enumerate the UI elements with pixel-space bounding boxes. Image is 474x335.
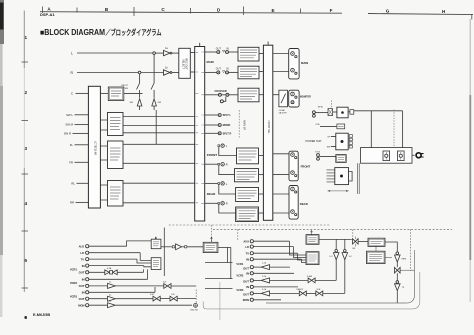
IC relay bus 2 — [263, 45, 272, 220]
transformer T3 — [335, 168, 349, 185]
wire VCR2 OUT row b — [116, 285, 164, 287]
wire remote column low — [396, 273, 398, 281]
wire V-C stem — [344, 239, 346, 249]
pin square buffer in — [172, 246, 174, 248]
svg-text:S-V2: S-V2 — [150, 294, 154, 296]
wire opt drop 2 — [230, 247, 232, 278]
svg-text:REMO2: REMO2 — [297, 289, 304, 291]
op-amp video out buffer 3 — [261, 291, 269, 296]
wire riser VCR1 in — [144, 266, 151, 267]
fuse box AC — [328, 109, 333, 116]
svg-text:TV: TV — [81, 257, 85, 261]
wire stubs bus to blocks — [100, 120, 107, 200]
connector MAIN IN R — [226, 71, 229, 74]
wire VCR3 OUT row b — [270, 292, 299, 294]
connector front pre L — [218, 145, 220, 147]
wire VCR2 OUT row — [253, 279, 260, 281]
svg-text:MONO: MONO — [223, 124, 231, 127]
wire VCR3 IN row — [89, 291, 155, 293]
wire dsp2 front R — [123, 162, 195, 164]
wire TV row — [89, 258, 137, 260]
balun remote 2 — [316, 291, 323, 296]
dashed separator remote — [213, 228, 452, 230]
wire R drop to input switch — [139, 74, 141, 83]
wire amp3 to bus2 — [259, 94, 263, 96]
wire VCR1 OUT row b — [270, 266, 290, 268]
svg-text:MAIN: MAIN — [301, 61, 308, 65]
wire R to buffer — [141, 72, 163, 74]
block REC OUT SELECTOR — [179, 48, 191, 78]
wire FR — [75, 161, 89, 163]
diode C-V converter — [335, 250, 338, 253]
amp block front R power — [235, 169, 259, 182]
wire amp4 to bus2 — [259, 155, 264, 157]
svg-text:4T A: 4T A — [315, 123, 320, 126]
wire rear L drop — [219, 184, 236, 194]
dashed separator digital — [169, 224, 330, 226]
wire VCR1 OUT row b — [117, 271, 143, 273]
svg-text:OUT: OUT — [216, 47, 222, 50]
wire amp1 to bus2 — [259, 53, 263, 55]
wire vcr2 link right — [205, 278, 233, 280]
wire riser VCR3 in — [154, 287, 156, 292]
wire to fuse F1A — [320, 125, 337, 127]
svg-text:MAIN SP: MAIN SP — [243, 120, 246, 130]
wire main in R to amp — [229, 71, 239, 73]
svg-text:REAR: REAR — [207, 192, 216, 196]
frame ticks top — [43, 7, 472, 20]
svg-text:MONITOR: MONITOR — [300, 96, 311, 98]
wire VCR3 OUT row — [89, 298, 107, 300]
wire opt out right — [218, 246, 231, 248]
fuse holder 2 — [398, 151, 405, 161]
svg-text:IN: IN — [226, 68, 229, 71]
junction remote in — [353, 239, 359, 244]
wire key IC to remote column — [385, 242, 397, 252]
box muting level IC — [108, 87, 124, 101]
svg-text:R: R — [226, 202, 228, 206]
wire front L drop — [219, 147, 237, 156]
wire vcr3 link right — [205, 288, 233, 290]
svg-text:■BLOCK DIAGRAM: ■BLOCK DIAGRAM — [40, 28, 105, 37]
svg-text:5: 5 — [25, 258, 28, 263]
wire riser VCR1 out — [143, 269, 145, 272]
wire coupler link — [222, 94, 226, 96]
wire MON row — [253, 299, 281, 301]
wire riser LD — [140, 253, 151, 261]
node bus1 top tick — [199, 43, 201, 47]
svg-text:F: F — [330, 8, 333, 13]
connector coupler aux — [220, 100, 223, 103]
wire dashed up from fuse — [330, 100, 332, 108]
wire front R drop — [219, 165, 235, 174]
svg-text:MON: MON — [243, 298, 249, 302]
connector SPLIT R — [205, 132, 218, 134]
pin labels bus1 — [196, 52, 204, 203]
wire bus2 to front jack L — [273, 153, 289, 155]
connector rear pre L — [205, 182, 218, 184]
terminal block MAIN speakers — [289, 49, 299, 79]
box 5V standby supply — [336, 155, 346, 163]
wire preamp to bus2 — [259, 212, 264, 214]
svg-text:OUT: OUT — [79, 271, 85, 275]
balun video 3a — [153, 296, 160, 301]
svg-text:5A 6/7W: 5A 6/7W — [279, 112, 287, 115]
wire VCR3 OUT row — [253, 292, 260, 294]
wire riser VCR2 in — [147, 269, 149, 279]
svg-text:RR: RR — [70, 201, 74, 205]
wire trunk video right — [163, 228, 165, 277]
wire LD row — [253, 246, 293, 248]
wire VCR2 OUT row — [89, 285, 107, 287]
wire SW L — [75, 114, 89, 116]
svg-text:VCR1: VCR1 — [236, 262, 243, 266]
wire stubs T2 left — [331, 137, 336, 147]
top frame rule — [40, 12, 473, 15]
svg-text:MAIN: MAIN — [207, 60, 214, 64]
dashed drop remote box right — [409, 229, 411, 270]
svg-text:Y-M: Y-M — [171, 294, 175, 296]
border chassis video inner — [266, 250, 415, 303]
dashed drop video left — [211, 225, 213, 242]
svg-text:SPLT L: SPLT L — [223, 114, 232, 117]
wire SW R — [73, 132, 89, 134]
block rear DSP — [108, 181, 124, 207]
node L junction — [153, 52, 156, 55]
wire FL — [75, 144, 89, 146]
svg-text:L: L — [71, 51, 73, 55]
scan edge streak left middle — [0, 44, 3, 86]
wire bus2 to rear jack L — [273, 193, 289, 195]
wire dsp2 front L — [123, 143, 195, 145]
wire bus2 to main spk jack L — [273, 53, 289, 55]
connector MAIN OUT L — [217, 51, 220, 54]
svg-text:IN: IN — [226, 47, 229, 50]
svg-text:RL: RL — [71, 182, 75, 186]
amp block tuner — [238, 88, 259, 102]
wire VCR2 OUT row c — [171, 285, 196, 287]
wire VCR3 OUT row c — [177, 298, 196, 300]
svg-text:1: 1 — [25, 35, 28, 40]
svg-text:AUX: AUX — [243, 239, 249, 243]
bracket T3 right — [349, 172, 353, 182]
wire MON row b — [116, 304, 193, 306]
wire riser TV — [137, 259, 151, 263]
box key remote IC — [368, 238, 385, 246]
pin square buffer out — [185, 246, 187, 248]
svg-text:OUT: OUT — [216, 68, 222, 71]
svg-text:SELECT: SELECT — [182, 59, 185, 69]
dashed drop remote box left — [352, 229, 354, 238]
frame ticks left — [22, 62, 29, 288]
arrow opt out up — [211, 237, 213, 242]
connector coupler in — [226, 93, 229, 96]
wire coupler to tuner amp — [229, 94, 238, 96]
balun video 2 — [164, 284, 171, 289]
switch input SW L — [151, 83, 154, 98]
svg-text:OSD SIG: OSD SIG — [190, 310, 198, 312]
amp block main L — [238, 47, 259, 61]
svg-text:DSP-A1: DSP-A1 — [40, 12, 55, 17]
wire bus2 to rear jack R — [273, 212, 289, 214]
svg-text:E: E — [271, 8, 274, 13]
wire muting box to input sw — [124, 92, 143, 94]
svg-text:SW: SW — [327, 147, 330, 149]
wire LD row — [89, 252, 140, 254]
svg-text:2: 2 — [25, 90, 28, 95]
wire C-V stem — [335, 239, 337, 249]
wire selector to bus R — [190, 71, 194, 73]
wire bus to muting box — [100, 92, 108, 94]
svg-text:OUT: OUT — [79, 297, 85, 301]
svg-text:LD: LD — [245, 245, 249, 249]
pin box T1 — [350, 110, 354, 115]
svg-text:IN: IN — [82, 278, 85, 282]
diode remote rx — [396, 252, 399, 255]
svg-text:OUT: OUT — [79, 284, 85, 288]
wire AU2 row — [89, 245, 127, 247]
wire riser AU2 to dig selector — [127, 241, 152, 246]
svg-text:SP A: SP A — [318, 106, 323, 109]
wire VCR2 OUT row b — [270, 279, 308, 281]
diode V-C converter — [344, 250, 347, 253]
svg-text:／ブロックダイアグラム: ／ブロックダイアグラム — [106, 28, 162, 37]
connector MAIN IN L — [226, 51, 229, 54]
amp block front L power — [237, 148, 259, 164]
wire R input — [77, 72, 138, 74]
svg-text:LC78211 4B: LC78211 4B — [94, 141, 97, 155]
svg-text:VCR3: VCR3 — [236, 288, 243, 292]
wire VCR2 IN row — [89, 278, 148, 280]
svg-text:IN: IN — [82, 264, 85, 268]
IC input selector bus — [88, 86, 100, 208]
wire bus2 to front jack R — [273, 174, 289, 176]
op-amp video out buffer 1 — [261, 265, 269, 270]
svg-text:VCR3: VCR3 — [70, 295, 78, 299]
balun video 3b — [170, 296, 177, 301]
wire amp5 to bus2 — [259, 174, 264, 176]
svg-text:FRONT: FRONT — [301, 164, 311, 168]
op-amp digital buffer — [176, 244, 182, 250]
row numbers — [25, 35, 28, 320]
svg-text:OUT: OUT — [243, 266, 249, 270]
op-amp buffer L2 — [164, 70, 171, 75]
connector speaker A pair — [313, 111, 316, 114]
svg-text:S-MA: S-MA — [307, 275, 312, 278]
wire selector to bus L — [190, 52, 194, 54]
footer dot — [25, 316, 27, 318]
svg-text:SW R: SW R — [64, 132, 71, 136]
wire MON row — [89, 304, 107, 306]
box optical digital out — [203, 242, 218, 252]
wire VCR1 IN row — [253, 258, 301, 260]
wire C-V drop — [335, 260, 337, 281]
wire spk A to fuse — [315, 112, 328, 114]
wire power cord — [358, 163, 360, 194]
svg-text:4-2A: 4-2A — [107, 267, 112, 270]
wire opt drop 1 — [227, 247, 229, 262]
svg-text:IN: IN — [246, 257, 249, 261]
svg-text:V-C: V-C — [349, 256, 353, 258]
wire dsp3 rear L — [123, 182, 195, 184]
wire RL — [77, 182, 89, 184]
svg-text:FRONT SEL: FRONT SEL — [267, 120, 270, 134]
box REC OUT selector IC video — [151, 258, 161, 270]
wire bus1 to main out R — [205, 71, 217, 73]
svg-text:OUT: OUT — [243, 293, 249, 297]
annotation main speaker dashed — [238, 110, 240, 138]
arrow video select up — [311, 230, 313, 234]
border chassis video outer — [203, 272, 420, 309]
wire main in L to amp — [229, 51, 239, 53]
wire mains drop 2 — [402, 111, 404, 148]
switch input SW R — [137, 83, 140, 98]
wire L to buffer — [156, 52, 164, 54]
wire VCR3 IN row — [253, 286, 298, 288]
wire SW M — [75, 124, 89, 126]
svg-text:E-M6J/5B: E-M6J/5B — [33, 313, 50, 317]
dashed drop aux right — [237, 229, 239, 241]
op-amp monitor buffer — [108, 303, 116, 308]
svg-text:AU2: AU2 — [79, 244, 85, 248]
wire bus1 to coupler — [205, 94, 219, 96]
wire RR — [76, 201, 89, 203]
svg-text:3: 3 — [25, 146, 28, 151]
amp block main R — [238, 66, 259, 79]
wire sys to balun — [385, 258, 415, 271]
wire amp2 to bus2 — [259, 71, 263, 73]
plug AC — [412, 154, 415, 156]
dimension arrow — [328, 190, 349, 192]
connector coupler out — [218, 93, 221, 96]
wire VCR1 OUT row — [89, 271, 105, 273]
wire AB2 to buffer — [161, 246, 172, 248]
svg-text:IN: IN — [246, 272, 249, 276]
svg-text:OUT: OUT — [243, 280, 249, 284]
svg-text:REAR: REAR — [300, 202, 308, 206]
node bus2 top tick — [267, 42, 269, 46]
svg-text:VCR1: VCR1 — [70, 267, 78, 271]
wire VCR2 IN row — [253, 272, 294, 274]
wire dsp1 mono — [123, 125, 195, 127]
dashed drop osd — [195, 290, 197, 304]
left frame rule — [23, 11, 25, 293]
wire dsp1 split L — [123, 116, 195, 118]
svg-text:4: 4 — [25, 201, 28, 206]
wire VCR3 between baluns — [160, 298, 169, 300]
wire key IC down to sys — [375, 246, 377, 251]
connector SPLIT L — [205, 114, 218, 116]
IC function selector bus — [195, 47, 205, 222]
column letters — [47, 7, 446, 15]
svg-text:SW L: SW L — [66, 113, 73, 117]
svg-text:R: R — [226, 163, 228, 167]
wire bus2 to main spk jack R — [273, 71, 289, 73]
svg-text:MON: MON — [78, 303, 84, 307]
wire VCR3 OUT row c — [323, 292, 345, 294]
svg-text:TV: TV — [246, 251, 250, 255]
wire TV row — [253, 252, 297, 254]
node R junction — [138, 71, 141, 74]
balun remote 1 — [299, 291, 306, 296]
wire buffer L1 to selector — [172, 52, 179, 54]
wire remote column mid — [396, 262, 398, 267]
svg-text:VCR2: VCR2 — [70, 281, 78, 285]
terminal block REAR speakers — [289, 186, 298, 220]
svg-text:S-IN: S-IN — [317, 289, 321, 291]
wire VCR1 OUT row — [253, 266, 260, 268]
fuse F1A — [337, 124, 345, 129]
wire L input — [77, 52, 153, 54]
wire remote tx drop — [396, 291, 398, 303]
connector MAIN OUT R — [217, 71, 220, 74]
svg-text:FL: FL — [70, 143, 74, 147]
diode remote tx — [396, 281, 399, 284]
amp block rear power — [236, 188, 259, 202]
terminal block FRONT speakers — [289, 151, 298, 181]
balun S-video right — [308, 278, 315, 283]
connector MONO — [205, 124, 218, 126]
wire TX B to box — [320, 156, 336, 158]
wire buffer L2 to selector — [172, 72, 179, 74]
wire mains drop 1 — [370, 111, 372, 148]
wire bus1 to main out L — [205, 51, 217, 53]
crystal OSD — [194, 304, 198, 308]
wire dsp3 rear R — [123, 202, 195, 204]
wire junction to key IC — [358, 240, 368, 242]
svg-text:SPLT R: SPLT R — [223, 133, 232, 136]
scan edge streak right — [470, 19, 471, 95]
buffer pair video out 1 — [105, 270, 117, 275]
svg-text:G: G — [386, 9, 390, 14]
terminal block monitor out — [289, 90, 299, 107]
wire V-C drop — [344, 260, 346, 294]
svg-text:FRONT: FRONT — [207, 153, 217, 157]
svg-text:COUPLER: COUPLER — [215, 90, 227, 93]
scan edge smudge left top — [0, 0, 4, 44]
box AC inlet — [361, 148, 413, 164]
svg-text:VCR2: VCR2 — [236, 273, 243, 277]
wire fuse to transformer T1 — [333, 111, 337, 113]
switch box monitor — [279, 90, 288, 107]
wire bus2 to monitor switch — [273, 94, 279, 96]
wire mains run — [354, 110, 403, 112]
op-amp video out buffer 2 — [261, 278, 269, 283]
connector rear pre R — [205, 202, 218, 204]
wire between baluns — [307, 292, 316, 294]
wire risers video right — [290, 241, 307, 262]
surge arrester L — [152, 99, 157, 110]
box system control IC — [367, 251, 386, 263]
transformer T1 — [337, 107, 348, 118]
svg-text:IN: IN — [82, 291, 85, 295]
wire VCR3 OUT row b — [116, 298, 153, 300]
block digital decoder DSP — [108, 113, 124, 136]
wire VCR1 IN row — [89, 265, 144, 267]
svg-text:IN: IN — [246, 285, 249, 289]
scan fold mark bottom — [218, 282, 221, 320]
transformer T2 — [336, 133, 348, 150]
block sub DSP — [108, 141, 124, 169]
fuse holder 1 — [383, 151, 390, 161]
op-amp video buffer 2 — [108, 283, 116, 288]
box video in out selector IC — [306, 252, 319, 265]
surge arrester R — [137, 99, 142, 110]
block pre amp adapter — [236, 207, 259, 222]
wire stubs T3 left — [327, 170, 335, 182]
wire AUX row — [253, 240, 289, 242]
connector front pre R — [205, 163, 218, 165]
